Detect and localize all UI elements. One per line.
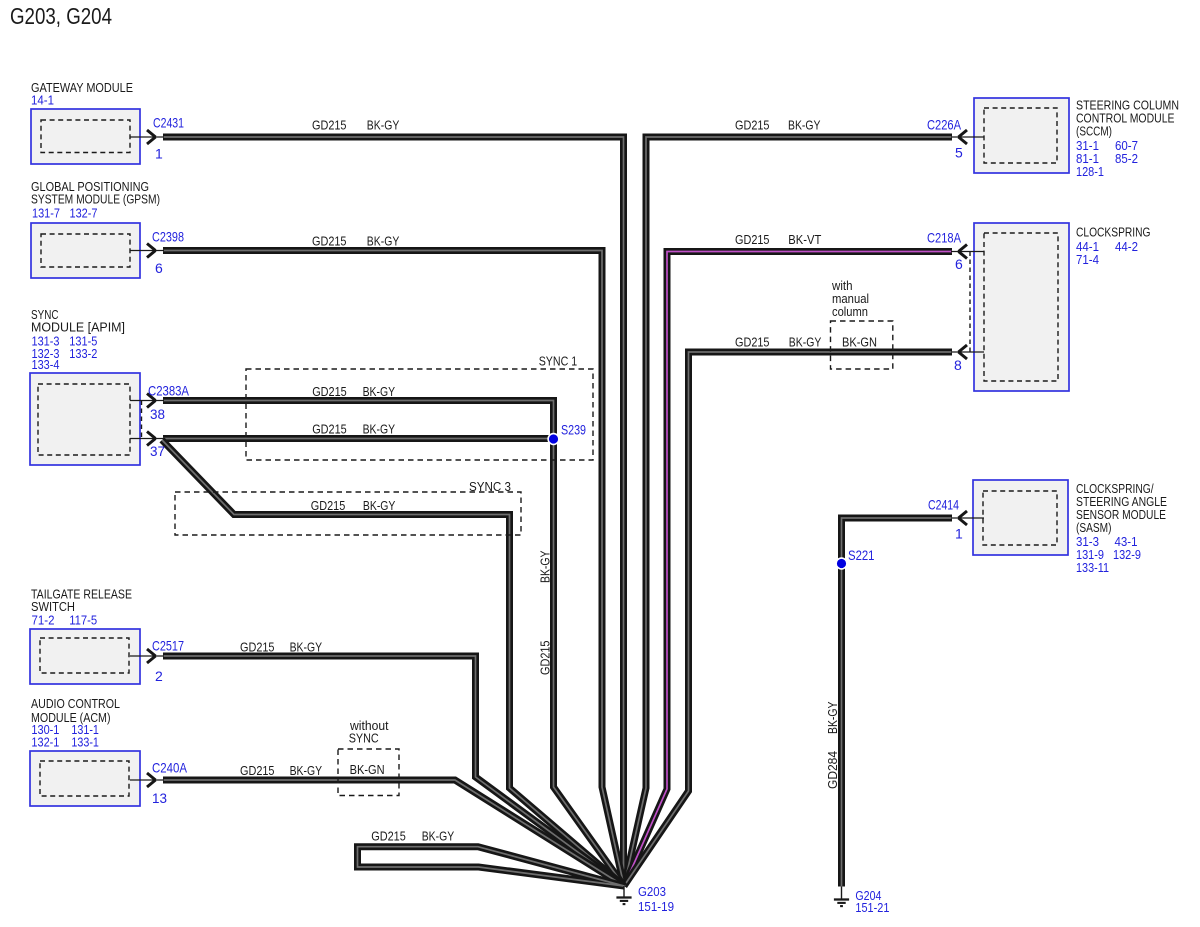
svg-text:C2517: C2517 <box>152 638 184 654</box>
svg-text:column: column <box>832 304 868 319</box>
svg-text:GD215: GD215 <box>735 118 770 133</box>
svg-text:G203, G204: G203, G204 <box>10 3 112 29</box>
svg-text:5: 5 <box>955 145 963 161</box>
connector bracket C2383A <box>141 401 143 439</box>
svg-text:C226A: C226A <box>927 117 962 133</box>
svg-text:151-21: 151-21 <box>855 900 889 915</box>
svg-text:BK-GY: BK-GY <box>290 640 323 655</box>
svg-text:BK-GY: BK-GY <box>290 763 323 778</box>
pin 6 C218A clockspring <box>951 245 984 259</box>
pin 6 C2398 GPSM <box>130 244 164 258</box>
dashed box SYNC 3 <box>175 492 521 535</box>
svg-text:SYNC: SYNC <box>349 731 379 746</box>
svg-text:44-2: 44-2 <box>1115 239 1138 254</box>
module box GATEWAY MODULE <box>31 109 140 164</box>
svg-text:BK-VT: BK-VT <box>788 232 821 247</box>
svg-text:C2398: C2398 <box>152 229 184 245</box>
module box ACM <box>30 751 140 806</box>
svg-text:C2414: C2414 <box>928 497 959 513</box>
connector face ACM <box>40 761 129 796</box>
svg-text:GD215: GD215 <box>240 763 275 778</box>
svg-text:C2383A: C2383A <box>148 383 190 399</box>
svg-text:GD215: GD215 <box>312 233 347 248</box>
splice S221 <box>836 558 847 569</box>
connector bracket C218A <box>969 252 971 353</box>
svg-text:85-2: 85-2 <box>1115 151 1138 166</box>
wire GD215 BK-GY SYNC C2383A-38 via S239 to G203 <box>163 401 624 887</box>
dashed box with manual column <box>831 321 893 369</box>
connector face SASM <box>983 491 1057 545</box>
svg-text:CLOCKSPRING: CLOCKSPRING <box>1076 225 1151 240</box>
wire GD215 BK-GY SCCM C226A-5 to G203 <box>624 137 952 886</box>
svg-text:C218A: C218A <box>927 229 962 245</box>
connector face SYNC <box>38 384 130 455</box>
svg-text:BK-GY: BK-GY <box>788 118 821 133</box>
svg-text:133-1: 133-1 <box>71 735 99 750</box>
svg-text:133-2: 133-2 <box>69 346 97 361</box>
dashed box SYNC 1 <box>246 369 593 460</box>
svg-text:S221: S221 <box>848 547 875 563</box>
pin 8 C218A clockspring <box>951 345 984 359</box>
ground G203 <box>616 886 631 904</box>
svg-text:132-1: 132-1 <box>31 735 59 750</box>
svg-text:C240A: C240A <box>152 760 188 776</box>
svg-text:BK-GY: BK-GY <box>367 118 400 133</box>
dashed box without SYNC <box>338 749 399 796</box>
svg-text:132-9: 132-9 <box>1113 547 1141 562</box>
svg-text:SYNC 3: SYNC 3 <box>469 479 511 494</box>
svg-text:GD215: GD215 <box>371 829 406 844</box>
svg-text:BK-GY: BK-GY <box>538 550 553 583</box>
svg-text:71-4: 71-4 <box>1076 252 1099 267</box>
svg-text:BK-GY: BK-GY <box>367 233 400 248</box>
svg-text:37: 37 <box>150 443 165 459</box>
ground G204 <box>834 887 849 907</box>
svg-text:GD215: GD215 <box>735 232 770 247</box>
module box CLOCKSPRING <box>974 223 1069 391</box>
connector face tailgate <box>40 638 129 673</box>
svg-text:GD215: GD215 <box>311 498 346 513</box>
svg-text:1: 1 <box>155 146 163 162</box>
connector face SCCM <box>984 108 1057 163</box>
module box SYNC APIM <box>30 373 140 465</box>
wire GD215 BK-GY ACM C240A-13 to G203 <box>163 780 624 886</box>
svg-text:133-4: 133-4 <box>32 357 60 372</box>
svg-text:117-5: 117-5 <box>69 612 97 627</box>
svg-text:38: 38 <box>150 406 165 422</box>
wire GD215 BK-GY/BK-GN clockspring C218A-8 to G203 <box>624 352 952 886</box>
svg-text:(SASM): (SASM) <box>1076 520 1112 535</box>
svg-text:131-7: 131-7 <box>32 206 60 221</box>
svg-text:128-1: 128-1 <box>1076 164 1104 179</box>
pin 1 C2431 gateway <box>130 130 164 144</box>
svg-text:BK-GN: BK-GN <box>350 762 385 777</box>
svg-text:BK-GY: BK-GY <box>422 829 455 844</box>
svg-text:SYNC 1: SYNC 1 <box>539 353 578 368</box>
svg-text:BK-GN: BK-GN <box>842 334 877 349</box>
svg-text:14-1: 14-1 <box>31 93 54 108</box>
wire GD215 BK-GY hairpin loop at G203 <box>358 847 625 886</box>
svg-text:71-2: 71-2 <box>32 612 55 627</box>
svg-text:GD215: GD215 <box>240 640 275 655</box>
svg-text:BK-GY: BK-GY <box>363 384 396 399</box>
svg-text:G203: G203 <box>638 884 666 899</box>
svg-text:GD215: GD215 <box>312 422 347 437</box>
svg-text:GD284: GD284 <box>825 751 840 789</box>
pin 38 C2383A SYNC <box>130 394 164 408</box>
module box SASM <box>973 480 1068 555</box>
svg-text:GD215: GD215 <box>312 384 347 399</box>
svg-text:GD215: GD215 <box>735 334 770 349</box>
svg-text:132-7: 132-7 <box>70 206 98 221</box>
pin 13 C240A ACM <box>130 773 164 787</box>
pin 2 C2517 tailgate <box>130 649 164 663</box>
svg-text:AUDIO CONTROL: AUDIO CONTROL <box>31 696 120 711</box>
svg-text:MODULE [APIM]: MODULE [APIM] <box>31 320 125 335</box>
svg-text:C2431: C2431 <box>153 114 184 130</box>
wire GD215 BK-VT clockspring C218A-6 to G203 <box>624 252 952 887</box>
module box SCCM <box>974 98 1069 173</box>
module box GPSM <box>31 223 140 278</box>
svg-text:6: 6 <box>155 260 163 276</box>
svg-text:(SCCM): (SCCM) <box>1076 124 1112 139</box>
svg-text:GD215: GD215 <box>538 641 553 676</box>
splice S239 <box>548 434 559 445</box>
svg-text:2: 2 <box>155 668 163 684</box>
wire GD215 BK-GY GPSM C2398-6 to G203 <box>163 251 624 887</box>
wire GD284 BK-GY SASM C2414-1 via S221 to G204 <box>842 518 953 887</box>
svg-text:BK-GY: BK-GY <box>363 498 396 513</box>
wire GD215 BK-GY gateway C2431-1 to G203 <box>163 137 624 886</box>
svg-text:BK-GY: BK-GY <box>789 334 822 349</box>
pin 1 C2414 SASM <box>951 511 984 525</box>
svg-text:1: 1 <box>955 525 963 541</box>
svg-text:BK-GY: BK-GY <box>825 701 840 734</box>
svg-text:BK-GY: BK-GY <box>363 422 396 437</box>
wire GD215 BK-GY tailgate C2517-2 to G203 <box>163 656 624 886</box>
connector face clockspring <box>984 233 1058 381</box>
connector face GPSM <box>41 234 130 267</box>
svg-text:GD215: GD215 <box>312 118 347 133</box>
svg-text:S239: S239 <box>561 422 586 438</box>
svg-text:6: 6 <box>955 256 963 272</box>
pin 5 C226A SCCM <box>951 130 984 144</box>
pin 37 C2383A SYNC <box>130 432 164 446</box>
svg-text:SYSTEM MODULE (GPSM): SYSTEM MODULE (GPSM) <box>31 192 160 207</box>
svg-text:13: 13 <box>152 790 167 806</box>
wire GD215 BK-GY SYNC 3 branch to G203 <box>162 440 624 886</box>
svg-text:133-11: 133-11 <box>1076 560 1109 575</box>
connector face gateway <box>41 120 130 153</box>
svg-text:151-19: 151-19 <box>638 899 674 914</box>
wire GD215 BK-GY SYNC C2383A-37 to S239 <box>163 435 554 442</box>
svg-text:8: 8 <box>954 357 962 373</box>
module box TAILGATE RELEASE SWITCH <box>30 629 140 684</box>
